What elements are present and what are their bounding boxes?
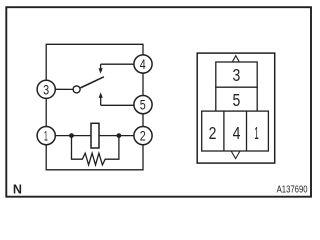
junction dot left [69, 133, 74, 138]
terminal 1 [37, 127, 55, 145]
svg-text:3: 3 [43, 82, 49, 97]
svg-text:2: 2 [209, 123, 217, 143]
svg-text:N: N [13, 183, 22, 197]
terminal 5 [134, 96, 152, 114]
key triangle bottom [231, 151, 240, 159]
terminal 3 [37, 80, 55, 98]
contact arrow to terminal 4 [99, 64, 134, 74]
wire 1 to 2 through coil [56, 135, 134, 137]
wire 4 to 5 [142, 73, 144, 95]
terminal 4 [134, 55, 152, 73]
junction dot right [117, 133, 122, 138]
terminal 2 [134, 127, 152, 145]
connector outline [197, 53, 275, 163]
svg-text:4: 4 [140, 57, 146, 72]
wire 3 to switch pivot [56, 88, 74, 90]
pin cavity 3 [216, 62, 257, 87]
pin cavity 5 [216, 87, 257, 111]
svg-text:4: 4 [233, 123, 241, 143]
switch SW pivot [73, 86, 80, 93]
svg-text:2: 2 [140, 129, 146, 144]
svg-text:3: 3 [233, 65, 241, 85]
relay coil L [91, 123, 99, 148]
svg-text:5: 5 [233, 90, 241, 110]
switch SW arm [80, 77, 104, 88]
wire bottom 1 to 2 [46, 145, 143, 170]
svg-text:A137690: A137690 [277, 185, 308, 196]
svg-text:1: 1 [254, 123, 259, 143]
contact arrow to terminal 5 [99, 92, 134, 105]
key triangle top [232, 56, 239, 63]
wire 5 to 2 [142, 114, 144, 127]
wire top edge 3 to 4 [46, 44, 143, 80]
pin cavity row 2 4 1 [202, 111, 269, 151]
svg-text:1: 1 [44, 128, 48, 143]
wire left 3 to 1 [45, 98, 47, 126]
resistor branch [72, 136, 119, 165]
svg-text:5: 5 [140, 98, 146, 113]
